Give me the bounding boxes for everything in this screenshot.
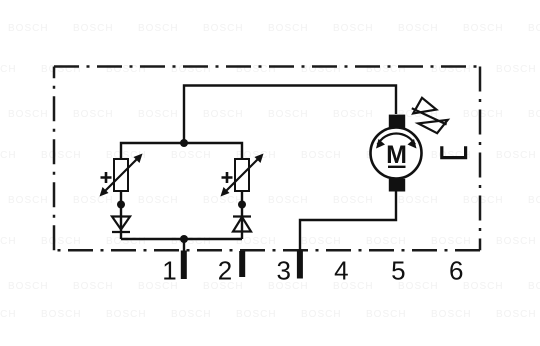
svg-text:BOSCH: BOSCH [138, 23, 179, 34]
svg-text:BOSCH: BOSCH [333, 23, 374, 34]
node C (right mid junction) [238, 201, 246, 209]
svg-text:3: 3 [276, 256, 290, 286]
svg-text:6: 6 [449, 256, 463, 286]
resistor R2 arrow [221, 154, 264, 197]
svg-text:2: 2 [218, 256, 232, 286]
resistor R2 (right variable resistor body) [235, 159, 249, 191]
nozzle icon (washer jet) [412, 98, 448, 133]
wire bottom rail [121, 238, 242, 240]
terminal bar 3 [297, 251, 303, 279]
terminal bar 1 [181, 251, 187, 280]
diode D2 (right, cathode up) [233, 217, 251, 232]
wire left resistor to diode [120, 191, 122, 239]
resistor R1 arrow [100, 154, 143, 197]
svg-text:BOSCH: BOSCH [268, 23, 309, 34]
bracket symbol [442, 146, 466, 157]
label + (R2) [222, 172, 233, 183]
wire motor to terminal 3 [300, 191, 396, 251]
svg-text:BOSCH: BOSCH [73, 23, 114, 34]
svg-text:4: 4 [334, 256, 348, 286]
node A (top junction) [180, 139, 188, 147]
motor M1 body [371, 128, 422, 179]
resistor R1 (left variable resistor body) [114, 159, 128, 191]
svg-text:BOSCH: BOSCH [203, 23, 244, 34]
terminal bar 2 [239, 251, 245, 277]
wire resistor top rail [121, 143, 242, 159]
motor M1 bottom brush [389, 179, 405, 192]
svg-text:M: M [386, 141, 407, 169]
node D (bottom junction) [180, 235, 188, 243]
svg-text:5: 5 [391, 256, 405, 286]
svg-text:BOSCH: BOSCH [398, 23, 439, 34]
diode D1 (left, cathode down) [112, 217, 130, 233]
svg-text:BOSCH: BOSCH [528, 23, 540, 34]
node B (left mid junction) [117, 201, 125, 209]
svg-text:BOSCH: BOSCH [8, 23, 49, 34]
wire top feed: junction to motor [184, 86, 396, 144]
svg-text:1: 1 [162, 256, 176, 286]
terminal labels 1-6 [162, 256, 463, 286]
wire right resistor to diode [241, 191, 243, 239]
border frame (dash-dot) [54, 67, 480, 251]
svg-text:BOSCH: BOSCH [463, 23, 504, 34]
label + (R1) [101, 172, 112, 183]
motor M1 top brush [389, 115, 405, 129]
wire node to terminal 1 [183, 239, 185, 251]
motor M1 rotation arrow [376, 134, 417, 149]
